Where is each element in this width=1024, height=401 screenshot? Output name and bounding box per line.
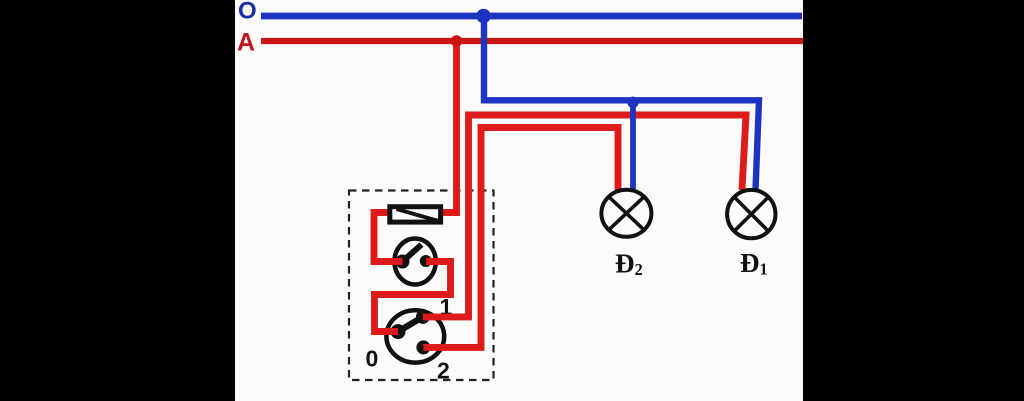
wire: fuse output to switch S1 left terminal: [374, 213, 403, 262]
switch S2 terminal 2: [416, 340, 430, 354]
svg-text:0: 0: [366, 346, 379, 372]
wire: S2 terminal 1 up and across to lamp D1: [423, 115, 746, 317]
wire: S2 terminal 2 up and across to lamp D2: [423, 128, 618, 348]
wire: blue drop from O bus to lamp D1 via horizontal run: [484, 16, 759, 190]
switch S1 right terminal: [420, 255, 432, 267]
node: junction on A bus: [451, 35, 463, 47]
svg-text:2: 2: [437, 358, 450, 384]
wire: red drop from A bus to fuse: [441, 41, 457, 213]
switch S1 left terminal: [396, 255, 410, 269]
lamp D1 body: [727, 190, 775, 238]
lamp D2 body: [601, 190, 651, 237]
switch S2 lever: [398, 317, 423, 332]
node: junction on O bus: [476, 9, 490, 23]
switch S1 body (single-pole): [394, 239, 435, 285]
live bus A: [261, 38, 803, 44]
fuse F1 diagonal: [397, 209, 439, 221]
switch box dashed enclosure: [349, 191, 494, 381]
switch S1 lever: [403, 245, 422, 262]
switch S2 body (two-way, terminals 0/1/2): [386, 310, 444, 362]
switch S2 terminal 1: [416, 310, 430, 324]
right black bar: [803, 0, 1024, 401]
neutral bus O: [261, 13, 802, 20]
switch S2 common terminal 0: [391, 324, 406, 339]
left black bar: [0, 0, 235, 401]
fuse F1 body: [390, 207, 441, 222]
lamp D1 cross: [734, 197, 768, 231]
wire: blue branch down to lamp D2: [630, 98, 636, 189]
svg-text:A: A: [237, 29, 255, 57]
wire: switch S1 right terminal down and across to S2 common: [375, 262, 451, 332]
svg-text:O: O: [238, 0, 257, 25]
lamp D2 cross: [609, 197, 644, 230]
node: junction on blue run above lamp D2: [627, 97, 638, 108]
